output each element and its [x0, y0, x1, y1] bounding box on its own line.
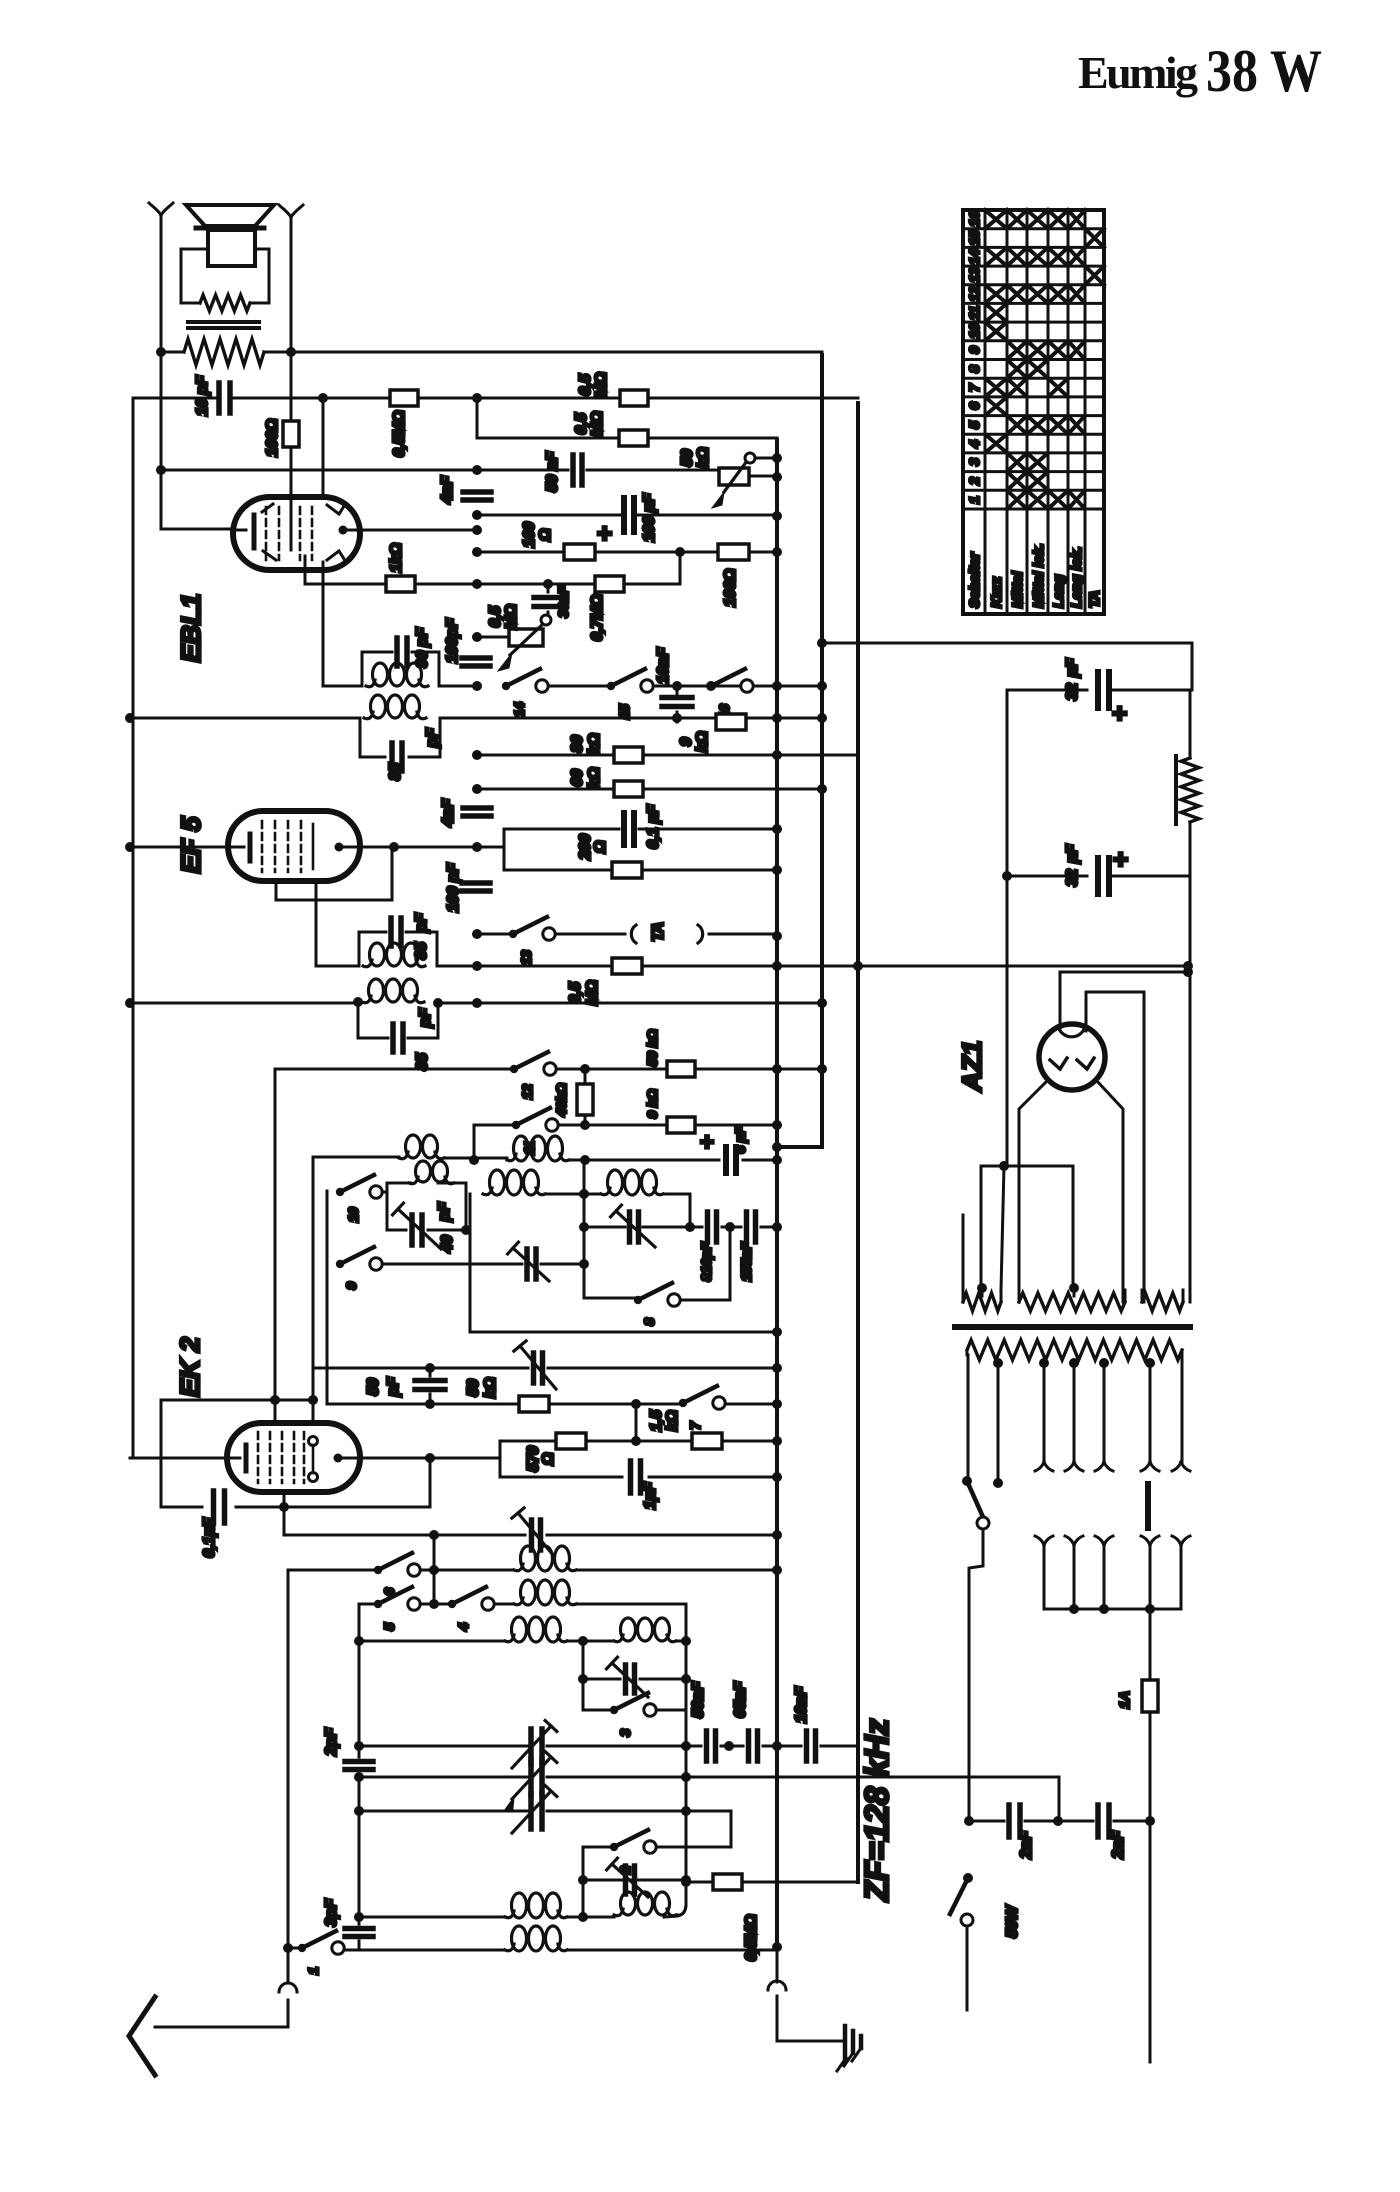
- resistor 100 ohm-2: [718, 544, 749, 560]
- AZ1 plate wires: [1019, 1080, 1048, 1302]
- svg-text:10nF: 10nF: [793, 1685, 810, 1723]
- svg-text:14: 14: [511, 702, 527, 717]
- svg-text:4: 4: [455, 1623, 471, 1632]
- output transformer box: [181, 249, 269, 303]
- resistor 60k: [614, 781, 643, 797]
- capacitor 0,1uF cathode: [161, 1458, 430, 1507]
- EK2 cathode pin: [283, 1492, 286, 1535]
- capacitor 65nF: [749, 1731, 758, 1761]
- svg-text:+: +: [700, 1129, 714, 1156]
- node V1 top dots: [772, 453, 782, 463]
- row 1404 50k switch7: [327, 1264, 683, 1404]
- wire row 1160 osc coils 6uF: [312, 1157, 315, 1423]
- svg-text:9: 9: [678, 737, 695, 746]
- svg-text:4nF: 4nF: [440, 798, 457, 828]
- svg-text:816pF: 816pF: [698, 1242, 714, 1282]
- capacitor 2nF-1: [969, 1820, 1058, 1823]
- resistor 0,7M: [595, 576, 624, 592]
- wire EF5 screen pin: [316, 881, 359, 966]
- capacitor 0,1uF: [624, 813, 634, 845]
- svg-text:+: +: [1112, 698, 1127, 728]
- svg-text:50: 50: [465, 1379, 482, 1397]
- capacitor 2pF vertical: [358, 1746, 361, 1777]
- junction dots 161 column: [156, 465, 166, 475]
- svg-text:60: 60: [569, 769, 586, 787]
- ground symbol: [777, 2040, 845, 2043]
- svg-text:1: 1: [305, 1967, 321, 1975]
- transformer core line: [955, 1324, 1190, 1330]
- antenna connector and arrow: [287, 1948, 290, 1983]
- svg-text:50 nF: 50 nF: [544, 450, 561, 492]
- svg-text:100Ω: 100Ω: [722, 568, 739, 607]
- capacitor 50nF-2: [707, 1731, 716, 1761]
- svg-text:kΩ: kΩ: [586, 733, 603, 755]
- svg-text:10 pF: 10 pF: [194, 374, 211, 416]
- svg-text:AZ1: AZ1: [957, 1040, 987, 1092]
- row 1535 osc trimmer to V1: [284, 1534, 777, 1537]
- resistor 9k: [716, 714, 746, 730]
- vertical 686: [685, 1604, 688, 1882]
- capacitor 32uF-2: [1007, 876, 1190, 1302]
- capacitor 1uF: [631, 1461, 641, 1493]
- capacitor 2nF-2: [1058, 1820, 1150, 1823]
- speaker horn: [186, 205, 274, 226]
- capacitor 4nF EF5: [463, 808, 491, 816]
- svg-text:TA: TA: [1086, 590, 1102, 608]
- wire AVC branch row2: [477, 398, 777, 438]
- svg-text:Mittel: Mittel: [1009, 570, 1025, 608]
- svg-text:9: 9: [966, 346, 982, 354]
- wire AVC row with 10pF: [133, 398, 227, 1458]
- switch 14: [502, 682, 510, 690]
- resistor 0,5M-d: [713, 1874, 742, 1890]
- svg-text:155nF: 155nF: [738, 1242, 754, 1282]
- wire EF5 plate to 0,1uF box: [339, 846, 504, 849]
- svg-text:2pF: 2pF: [323, 1727, 340, 1757]
- row 1264 trimmer: [470, 1263, 584, 1266]
- resistor 40k vertical: [584, 1069, 587, 1125]
- capacitor 100uF electrolytic: [624, 498, 634, 532]
- resistor 80k: [614, 747, 643, 763]
- svg-text:2: 2: [966, 477, 982, 486]
- svg-text:Ω: Ω: [537, 528, 554, 542]
- mains switch pole1: [967, 1355, 970, 1481]
- V1 break connector and ground: [776, 1947, 779, 2041]
- primary taps: [993, 1358, 1003, 1368]
- svg-text:12: 12: [966, 286, 982, 302]
- resistor 570 ohm: [556, 1433, 586, 1449]
- speaker terminal forks: [149, 203, 173, 215]
- junction 477 rows: [472, 465, 482, 475]
- resistor 50k-2: [519, 1396, 549, 1412]
- svg-text:38 W: 38 W: [1206, 38, 1322, 104]
- resistor 1k: [386, 576, 415, 592]
- transformer primary left winding: [962, 1215, 965, 1290]
- switch 5 and 4 row: [359, 1603, 378, 1606]
- wire row B to mains: [1058, 1779, 1061, 1821]
- svg-text:kΩ: kΩ: [586, 767, 603, 789]
- capacitor 10pF: [219, 383, 230, 413]
- row D 1917 coils: [359, 1916, 505, 1919]
- svg-text:kΩ: kΩ: [482, 1377, 499, 1399]
- box trimmer upper: [583, 1641, 686, 1710]
- resistor 0,5M-b: [620, 390, 648, 406]
- svg-text:µF: µF: [1064, 657, 1081, 678]
- trimmer cap osc: [630, 1212, 639, 1242]
- svg-text:50nF: 50nF: [690, 1680, 707, 1718]
- capacitor 30nF to pot wiper: [547, 584, 550, 615]
- svg-text:85: 85: [387, 762, 404, 781]
- vertical 359: [358, 1604, 361, 1746]
- svg-text:1µF: 1µF: [642, 1481, 659, 1510]
- speaker body / magnet: [208, 230, 255, 266]
- svg-text:3: 3: [966, 458, 982, 466]
- svg-text:Ω: Ω: [540, 1452, 557, 1466]
- svg-text:pF: pF: [436, 1201, 453, 1222]
- resistor 50k row1069: [667, 1061, 695, 1077]
- wire long B+ top run to V2: [291, 351, 822, 354]
- svg-text:1: 1: [966, 496, 982, 504]
- EBL1 internals: [233, 529, 246, 532]
- svg-text:pF: pF: [417, 1007, 434, 1028]
- AZ1 anodes: [1050, 1058, 1067, 1069]
- gang capacitor 2: [531, 1760, 542, 1795]
- svg-text:2nF: 2nF: [1018, 1830, 1035, 1860]
- capacitor 6uF electrolytic: [726, 1147, 736, 1173]
- svg-text:14: 14: [966, 249, 982, 265]
- svg-text:2nF: 2nF: [1110, 1830, 1127, 1860]
- svg-text:kΩ: kΩ: [695, 447, 712, 469]
- svg-text:3: 3: [617, 1729, 633, 1737]
- svg-text:9 kΩ: 9 kΩ: [644, 1089, 660, 1119]
- resistor 160 ohm: [564, 544, 595, 560]
- bus V1 main column: [775, 440, 779, 1947]
- potentiometer 0,5M with arrow: [509, 629, 543, 646]
- box trimmer lower: [583, 1879, 686, 1882]
- transformer secondary group3: [1142, 1293, 1183, 1311]
- svg-text:MΩ: MΩ: [584, 980, 601, 1006]
- svg-text:40kΩ: 40kΩ: [553, 1083, 569, 1117]
- svg-text:50: 50: [365, 1378, 382, 1396]
- IF box3 85pF: [359, 932, 437, 966]
- EF5 internals: [130, 846, 244, 849]
- svg-text:pF: pF: [385, 1376, 402, 1397]
- transformer box winding zigzag: [200, 295, 250, 311]
- resistor 100 ohm: [283, 421, 299, 447]
- capacitor 10nF vertical: [676, 686, 679, 722]
- svg-text:µF: µF: [1064, 843, 1081, 864]
- capacitor 50nF: [573, 455, 582, 485]
- svg-text:+: +: [597, 518, 612, 548]
- svg-text:4: 4: [966, 440, 982, 449]
- wire row 789 60k: [477, 788, 822, 791]
- row C 1811 gang3: [358, 1777, 361, 1917]
- switch 9: [336, 1260, 344, 1268]
- resistor 0,5M-c: [619, 430, 648, 446]
- capacitor 50pF vertical: [429, 1368, 432, 1404]
- gang capacitor 1: [531, 1729, 542, 1764]
- wire speaker left terminal down: [161, 214, 233, 529]
- table X marks: [985, 210, 1104, 509]
- svg-text:9: 9: [343, 1282, 359, 1290]
- row 1368 50pF trimmer: [313, 1367, 777, 1370]
- svg-text:0,5: 0,5: [573, 412, 590, 435]
- svg-text:EF 5: EF 5: [176, 816, 206, 874]
- junction dots speaker: [156, 347, 166, 357]
- wire row 1400 left: [161, 1399, 313, 1402]
- svg-text:160: 160: [521, 522, 538, 548]
- wire row 722 to V2 with 9k: [440, 717, 822, 720]
- svg-text:30nF: 30nF: [555, 586, 571, 618]
- svg-text:100Ω: 100Ω: [264, 418, 281, 457]
- svg-text:0,7MΩ: 0,7MΩ: [589, 594, 606, 641]
- wire heater tap run: [981, 1166, 1004, 1288]
- svg-text:MΩ: MΩ: [593, 372, 610, 398]
- svg-text:80: 80: [569, 735, 586, 753]
- svg-text:0,5: 0,5: [567, 981, 584, 1004]
- resistor 0,5M grid EF5: [612, 958, 642, 974]
- wire row 755 80k: [477, 754, 858, 757]
- switch 7: [679, 1399, 687, 1407]
- svg-text:1,5: 1,5: [648, 1409, 665, 1432]
- capacitor 816pF: [708, 1212, 717, 1242]
- wire V2 to rectifier column: [822, 643, 1192, 690]
- filter column 1007: [1006, 690, 1009, 1166]
- svg-text:MΩ: MΩ: [589, 411, 606, 437]
- mains switch pole2: [963, 1873, 973, 1883]
- row 1641 coils: [359, 1640, 505, 1643]
- box 0,1uF 200ohm: [504, 829, 777, 870]
- wire EBL1 triode plate to AVC: [322, 398, 325, 500]
- svg-text:65nF: 65nF: [732, 1680, 749, 1718]
- svg-text:Kurz: Kurz: [988, 577, 1004, 608]
- svg-text:100pF: 100pF: [444, 617, 461, 663]
- svg-text:kΩ: kΩ: [664, 1410, 681, 1432]
- svg-text:6: 6: [966, 402, 982, 410]
- svg-text:7: 7: [966, 383, 982, 392]
- svg-text:32: 32: [1064, 683, 1081, 701]
- capacitor 100pF EF5: [462, 883, 490, 891]
- capacitor 32uF-1: [1007, 689, 1192, 692]
- capacitor 3pF vertical: [358, 1917, 361, 1950]
- antenna line vertical: [287, 1570, 290, 1948]
- svg-text:50: 50: [679, 449, 696, 467]
- osc block row 1194: [469, 1194, 472, 1264]
- svg-text:3pF: 3pF: [323, 1898, 340, 1927]
- trimmer osc padder: [532, 1520, 541, 1550]
- svg-text:10: 10: [966, 323, 982, 339]
- IF box2 85pF: [360, 718, 440, 757]
- wire row 584 1k 0,7M: [305, 552, 680, 584]
- svg-text:90 pF: 90 pF: [414, 626, 431, 668]
- switch 16: [707, 682, 715, 690]
- wire EBL1 bottom pins: [305, 556, 362, 686]
- svg-text:0,5MΩ: 0,5MΩ: [743, 1914, 760, 1961]
- gang capacitor 3: [531, 1794, 542, 1829]
- tube EF5 envelope: [228, 811, 360, 881]
- voltage selector lower contacts: [1035, 1536, 1053, 1545]
- svg-text:50W: 50W: [1004, 1904, 1021, 1938]
- svg-text:5: 5: [381, 1623, 397, 1631]
- svg-text:8: 8: [966, 365, 982, 373]
- wire EF5 grid loop: [276, 847, 392, 900]
- selector plug bar: [1145, 1484, 1151, 1528]
- voltage selector upper contacts: [1035, 1462, 1053, 1471]
- row B 1777 gang2: [359, 1776, 1059, 1779]
- svg-text:12: 12: [519, 1084, 535, 1099]
- svg-text:Mittel lok.: Mittel lok.: [1030, 543, 1046, 608]
- switch 8: [584, 1297, 638, 1300]
- AZ1 heater wires: [1060, 972, 1188, 1029]
- transformer secondary group1: [963, 1293, 1001, 1311]
- svg-text:85: 85: [414, 1052, 431, 1071]
- capacitor 155nF: [747, 1212, 756, 1242]
- bus V3 AVC column: [856, 403, 860, 1882]
- transformer secondary group2: [1019, 1293, 1125, 1311]
- wire row 552 160ohm 100ohm: [477, 551, 777, 554]
- capacitor 4nF EBL1: [463, 492, 491, 500]
- wire speaker right terminal down: [290, 216, 293, 500]
- resistor 200 ohm: [612, 862, 642, 878]
- tube EBL1 envelope: [233, 497, 360, 570]
- svg-text:Ω: Ω: [592, 840, 609, 854]
- box 570ohm 1uF: [635, 1404, 638, 1441]
- wire grid row 470 with 50nF: [161, 469, 719, 472]
- svg-text:10: 10: [345, 1207, 361, 1222]
- svg-text:50 kΩ: 50 kΩ: [644, 1029, 660, 1066]
- svg-text:85: 85: [413, 941, 430, 960]
- wire row 966 long to right column: [437, 965, 1188, 968]
- svg-text:Lang lok.: Lang lok.: [1068, 547, 1084, 608]
- svg-text:Eumig: Eumig: [1078, 47, 1198, 98]
- svg-text:11: 11: [966, 306, 982, 321]
- svg-text:1A: 1A: [1116, 1691, 1132, 1708]
- IF box1 90pF: [362, 652, 439, 686]
- svg-text:TA: TA: [650, 922, 667, 942]
- svg-text:MΩ: MΩ: [503, 604, 520, 630]
- IF box4 85pF: [358, 1002, 438, 1038]
- capacitor 10nF-2: [807, 1731, 816, 1761]
- switch 2: [610, 1843, 618, 1851]
- svg-text:+: +: [1113, 844, 1128, 874]
- switch 13 and TA jack: [477, 933, 513, 936]
- switch 6 row: [288, 1569, 378, 1572]
- svg-text:0,5: 0,5: [577, 373, 594, 396]
- box 40pF with coil: [387, 1183, 466, 1230]
- svg-text:Schalter: Schalter: [966, 551, 982, 608]
- svg-text:5: 5: [966, 421, 982, 429]
- svg-text:0,1µF: 0,1µF: [201, 1517, 218, 1558]
- vertical 434: [433, 1535, 436, 1604]
- switch 12: [510, 1065, 518, 1073]
- row A 1746 gang1 50nF 65nF 10nF: [359, 1745, 858, 1748]
- selector collector wire: [1044, 1545, 1181, 1609]
- wire row 1125 switch11 9k: [474, 1125, 777, 1160]
- transformer core bars: [188, 322, 259, 328]
- wire EK2 plate row: [338, 1457, 500, 1460]
- bus V2 B+ column: [777, 355, 822, 1147]
- svg-text:EK 2: EK 2: [175, 1337, 205, 1397]
- resistor 0,5M-a: [390, 390, 418, 406]
- switch 11: [512, 1121, 520, 1129]
- svg-text:13: 13: [966, 267, 982, 283]
- svg-text:1kΩ: 1kΩ: [388, 542, 405, 572]
- svg-text:100 µF: 100 µF: [641, 492, 658, 542]
- switch function table frame: [963, 210, 1104, 614]
- svg-text:0,5: 0,5: [487, 605, 504, 628]
- field coil resistor: [1189, 690, 1192, 878]
- svg-text:6 µF: 6 µF: [732, 1126, 748, 1154]
- tube EK2 envelope: [274, 1069, 277, 1423]
- svg-text:Lang: Lang: [1050, 574, 1066, 608]
- rectifier AZ1 envelope: [1039, 1024, 1105, 1090]
- resistor 9k-2: [667, 1117, 695, 1133]
- switch 3: [583, 1709, 614, 1712]
- svg-text:15: 15: [966, 230, 982, 246]
- svg-text:ZF=128 kHz: ZF=128 kHz: [858, 1718, 895, 1902]
- fuse 1A: [1149, 1609, 1152, 1821]
- transformer primary winding: [967, 1340, 1182, 1360]
- switch 1 row: [288, 1947, 302, 1950]
- svg-text:100 pF: 100 pF: [445, 862, 462, 912]
- svg-text:8: 8: [641, 1318, 657, 1326]
- node AVC dots: [318, 393, 328, 403]
- svg-text:32: 32: [1064, 869, 1081, 887]
- EK2 internals: [130, 1457, 240, 1460]
- svg-text:pF: pF: [424, 727, 441, 748]
- svg-text:40: 40: [439, 1235, 456, 1254]
- row 1882 0,5M: [583, 1880, 858, 1882]
- switch 15: [607, 682, 615, 690]
- svg-text:13: 13: [518, 950, 534, 965]
- svg-text:16: 16: [966, 211, 982, 227]
- svg-text:0,5MΩ: 0,5MΩ: [391, 410, 408, 457]
- svg-text:kΩ: kΩ: [694, 731, 711, 753]
- capacitor 100pF in 477 line: [462, 658, 490, 666]
- resistor 1,5k: [692, 1433, 722, 1449]
- svg-text:0,1 µF: 0,1 µF: [645, 804, 662, 849]
- switch 10: [326, 1191, 329, 1264]
- svg-text:10nF: 10nF: [655, 646, 672, 684]
- wire V1-V2 join 1147: [772, 1142, 782, 1152]
- output winding zigzag: [161, 351, 291, 354]
- svg-text:4nF: 4nF: [439, 475, 456, 505]
- svg-text:pF: pF: [413, 912, 430, 933]
- wire screen row 515 with 100uF: [477, 514, 777, 517]
- osc block frame bottom: [470, 1264, 777, 1332]
- svg-text:EBL1: EBL1: [176, 593, 206, 662]
- wire row 1003: [130, 1002, 822, 1005]
- wire row 1069 switch12: [275, 1068, 822, 1071]
- osc block row 1227 trimmer 816pF 155nF: [583, 1160, 586, 1298]
- potentiometer 50k: [719, 468, 749, 485]
